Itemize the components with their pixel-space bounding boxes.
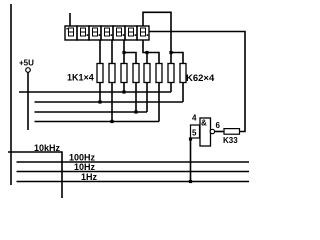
wire R2 bottom to line D <box>111 83 113 122</box>
svg-text:5: 5 <box>192 129 197 138</box>
junction dot pin5 wire on 1Hz line <box>189 180 192 183</box>
wire R1 bottom to line B <box>99 83 101 103</box>
wire R8 bottom to line B end <box>182 83 184 103</box>
wire left vertical rail <box>10 4 12 185</box>
junction dot feeder R7 <box>169 51 172 54</box>
+5V supply terminal <box>26 68 31 73</box>
svg-text:100Hz: 100Hz <box>69 153 96 163</box>
wire R6 bottom to line D end <box>158 83 160 122</box>
wire R7 top stub <box>170 53 172 64</box>
svg-text:K62×4: K62×4 <box>186 73 215 84</box>
wire 10Hz bus line <box>17 171 250 173</box>
junction dot feeder R3 <box>122 51 125 54</box>
wire display output to K33 right end <box>149 32 245 132</box>
junction dot R2 line D <box>110 120 113 123</box>
resistor R1 <box>97 64 103 83</box>
junction dot R4 line C <box>134 110 137 113</box>
svg-text:1Hz: 1Hz <box>81 172 98 182</box>
resistor R5 <box>144 64 150 83</box>
wire R7 bottom to line A end <box>170 83 172 93</box>
svg-text:4: 4 <box>192 114 197 123</box>
wire display pin to R3 <box>123 40 125 64</box>
junction dot R1 line B <box>98 100 101 103</box>
svg-text:10Hz: 10Hz <box>74 162 96 172</box>
resistor R6 <box>156 64 162 83</box>
resistor R3 <box>121 64 127 83</box>
wire digit line C <box>35 111 148 113</box>
resistor R7 <box>168 64 174 83</box>
wire 1Hz bus line <box>17 181 250 183</box>
resistor R4 <box>133 64 139 83</box>
svg-text:K33: K33 <box>223 136 238 145</box>
wire feeder R7 R8 <box>171 53 183 64</box>
gate U1 body <box>200 118 211 146</box>
wire R5 bottom to line C end <box>146 83 148 113</box>
svg-text:6: 6 <box>216 121 221 130</box>
wire gate output bubble to K33 <box>215 131 224 133</box>
wire gate pin 5 to 1Hz line <box>190 138 192 182</box>
svg-text:1K1×4: 1K1×4 <box>67 73 94 83</box>
wire R3 bottom to line A <box>123 83 125 93</box>
resistor R8 <box>180 64 186 83</box>
svg-text:&: & <box>201 119 207 128</box>
svg-text:10kHz: 10kHz <box>34 143 61 153</box>
resistor K33 body <box>224 129 240 135</box>
wire display pin to R2 <box>111 40 113 64</box>
display DD1 cell 4 <box>101 26 113 40</box>
svg-text:+5U: +5U <box>19 59 34 68</box>
wire display pin to R1 <box>99 40 101 64</box>
wire stub above display digit 1 <box>69 13 71 26</box>
wire display cell7 pin feeder to R5 R6 <box>143 40 159 64</box>
display DD1 cell 5 <box>113 26 125 40</box>
wire 100Hz bus line <box>17 161 250 163</box>
display DD1 cell 6 <box>125 26 137 40</box>
wire R4 bottom to line C <box>135 83 137 113</box>
wire R5 top stub <box>146 53 148 64</box>
display DD1 cell 1 <box>65 26 77 40</box>
wire feeder R3 to R4 <box>124 53 136 64</box>
display DD1 cell 7 <box>137 26 149 40</box>
resistor R2 <box>109 64 115 83</box>
pin 5 box <box>191 125 200 138</box>
wire digit line D <box>35 121 160 123</box>
wire digit line B <box>35 101 184 103</box>
display DD1 cell 3 <box>89 26 101 40</box>
display DD1 cell 2 <box>77 26 89 40</box>
wire digit line A <box>19 91 171 93</box>
wire +5V vertical <box>27 72 29 130</box>
junction dot pin 5 corner <box>189 137 192 140</box>
gate output bubble <box>210 129 214 133</box>
wire 10kHz line with drop <box>8 152 62 198</box>
wire top loop from display cell 7 to right resistor feeder <box>143 12 171 52</box>
junction dot R3 line A <box>122 90 125 93</box>
junction dot feeder R5 <box>145 51 148 54</box>
